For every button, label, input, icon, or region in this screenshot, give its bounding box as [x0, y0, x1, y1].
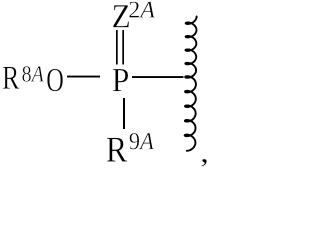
- atom label R (of R9A): [107, 138, 127, 162]
- superscript 9 (of R9A): [130, 133, 140, 149]
- atom label P (phosphorus center): [113, 69, 129, 91]
- single bond P-R9A: [123, 98, 125, 129]
- atom label R (of R8A): [3, 67, 20, 89]
- superscript 2 (of Z2A): [129, 2, 139, 18]
- atom label O: [47, 69, 63, 92]
- wavy bond (attachment squiggle): [185, 17, 197, 151]
- atom label Z: [113, 5, 129, 27]
- superscript 8 (of R8A): [22, 66, 30, 82]
- single bond O-P: [67, 76, 100, 78]
- comma punctuation: [201, 159, 206, 167]
- superscript italic A (of Z2A): [139, 2, 155, 18]
- single bond P to attachment point: [132, 76, 184, 78]
- double bond P=Z, left line: [116, 30, 118, 65]
- superscript italic A (of R9A): [139, 133, 154, 149]
- superscript italic A (of R8A): [31, 66, 44, 81]
- double bond P=Z, right line: [122, 30, 124, 65]
